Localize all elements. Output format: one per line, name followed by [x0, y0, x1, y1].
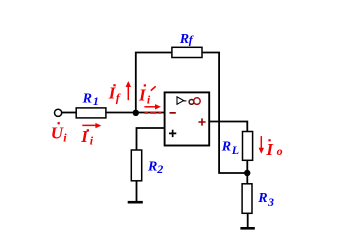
- svg-text:R: R: [221, 140, 231, 155]
- label R1: [82, 92, 99, 109]
- wire input terminal to R1: [62, 112, 76, 114]
- svg-text:f: f: [116, 91, 121, 105]
- label If feedback current with up arrow: [108, 81, 131, 105]
- wire RL to R3 through node B: [246, 160, 248, 184]
- svg-text:1: 1: [93, 94, 99, 108]
- label R2: [147, 160, 163, 177]
- wire R3 to ground: [247, 213, 249, 227]
- wire feedback riser from node A: [136, 53, 172, 113]
- svg-text:R: R: [147, 160, 157, 175]
- op-amp U1 box: [165, 92, 210, 145]
- label Ii current with arrow: [80, 123, 101, 147]
- svg-text:i: i: [147, 93, 151, 107]
- svg-text:R: R: [82, 92, 92, 107]
- wire Rf to node B: [202, 53, 247, 174]
- svg-text:o: o: [277, 144, 283, 158]
- op-amp inverting input minus sign: [170, 112, 176, 114]
- resistor R1: [76, 108, 106, 118]
- svg-text:i: i: [90, 133, 94, 147]
- ground below R3: [240, 227, 254, 230]
- svg-text:I: I: [265, 140, 274, 159]
- label Ui phasor: [51, 122, 67, 144]
- label Rf: [179, 32, 194, 47]
- op-amp output plus sign: [198, 118, 205, 125]
- node B junction dot: [244, 170, 250, 176]
- node A junction dot: [133, 110, 139, 116]
- svg-text:L: L: [231, 143, 239, 157]
- resistor R2: [131, 150, 141, 181]
- resistor RL: [243, 132, 253, 161]
- label R3: [257, 191, 274, 209]
- resistor Rf: [172, 47, 202, 57]
- svg-text:U: U: [51, 123, 64, 142]
- svg-text:i: i: [63, 130, 67, 144]
- op-amp infinity gain symbol: [189, 98, 200, 105]
- op-amp triangle symbol: [177, 97, 184, 105]
- wire op-amp output to RL: [209, 122, 247, 132]
- op-amp non-inverting input plus sign: [169, 130, 176, 137]
- svg-text:I: I: [138, 85, 147, 104]
- wire R1 to op-amp inverting input: [106, 112, 165, 114]
- svg-text:3: 3: [267, 195, 274, 209]
- input terminal: [55, 109, 62, 116]
- svg-text:R: R: [257, 191, 267, 206]
- label RL: [221, 140, 239, 157]
- label Ii-prime current with arrow: [138, 84, 161, 113]
- wire R2 to ground: [136, 181, 138, 202]
- label Io output current with down arrow: [259, 136, 283, 159]
- ground below R2: [128, 201, 143, 204]
- svg-text:2: 2: [156, 162, 163, 176]
- svg-text:f: f: [189, 32, 194, 46]
- svg-text:R: R: [179, 32, 189, 47]
- wire op-amp non-inverting input to R2: [137, 128, 165, 150]
- resistor R3: [242, 184, 252, 214]
